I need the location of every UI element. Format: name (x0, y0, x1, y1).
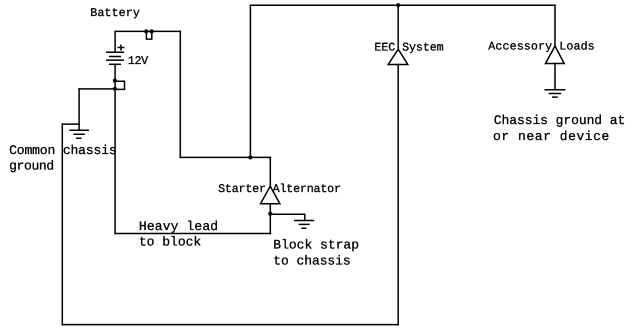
node connector J2 pin 1 (113, 79, 117, 83)
wire accessory triangle to ground (554, 64, 556, 90)
node connector J1 pin 2 (150, 29, 154, 33)
wire battery negative horizontal (79, 88, 115, 90)
wire battery negative vertical down (114, 64, 116, 233)
svg-text:Accessory Loads: Accessory Loads (488, 39, 594, 53)
ground common chassis (70, 130, 88, 138)
svg-text:to block: to block (139, 235, 201, 250)
ground accessory chassis (545, 90, 565, 97)
node top rail / EEC junction (396, 3, 400, 7)
ground block strap (295, 221, 314, 229)
wire heavy lead horizontal (115, 233, 270, 235)
svg-text:Starter Alternator: Starter Alternator (218, 182, 341, 196)
svg-text:ground: ground (9, 159, 54, 174)
transistor/load triangle EEC System (388, 49, 408, 64)
wire starter vertical (269, 204, 271, 234)
wire starter to block-strap ground (270, 214, 305, 220)
svg-text:to chassis: to chassis (273, 254, 350, 269)
svg-text:12V: 12V (128, 54, 149, 68)
wire top rail (250, 4, 555, 6)
wire accessory drop from rail (554, 5, 556, 46)
svg-text:EEC System: EEC System (374, 41, 443, 55)
node connector J1 pin 1 (144, 29, 148, 33)
battery plus sign (118, 45, 124, 50)
wire battery positive to top-right corner (115, 31, 180, 52)
wire bottom rail (62, 324, 398, 326)
svg-text:Block strap: Block strap (273, 238, 359, 253)
wire tee to common ground (62, 123, 79, 125)
svg-text:or near device: or near device (493, 129, 609, 144)
battery B1 plates (107, 51, 124, 53)
wire common ground stub (78, 89, 80, 130)
wire left riser (61, 124, 63, 325)
svg-text:Heavy lead: Heavy lead (139, 219, 218, 234)
wire starter apex to mid horizontal (269, 157, 271, 186)
svg-text:Chassis ground at: Chassis ground at (494, 113, 626, 128)
connector J2 rectangle at battery negative (116, 81, 125, 89)
node mid rail junction (248, 155, 252, 159)
load triangle Starter Alternator (261, 186, 280, 204)
node starter ground junction (268, 212, 272, 216)
wire vertical from battery top wire down (179, 31, 181, 157)
wire EEC below triangle to bottom rail (397, 65, 399, 325)
node connector J2 pin 2 (113, 87, 117, 91)
wire riser to top rail (249, 5, 251, 157)
wire EEC drop from rail (397, 5, 399, 49)
load triangle Accessory Loads (546, 46, 565, 64)
svg-text:Common chassis: Common chassis (9, 143, 117, 158)
wire horizontal mid to starter drop (180, 156, 270, 158)
connector J1 rectangle on top wire (146, 31, 151, 39)
svg-text:Battery: Battery (90, 6, 140, 20)
